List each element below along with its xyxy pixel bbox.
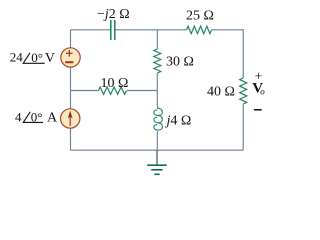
resistor 40 ohm (right rail)	[240, 78, 247, 104]
wire: capacitor to 25-ohm resistor	[115, 29, 186, 31]
svg-text:30 Ω: 30 Ω	[166, 55, 194, 70]
wire: middle horizontal right of 10-ohm to middle branch	[127, 90, 157, 92]
wire: left rail bottom (current source to bottom corner)	[70, 128, 72, 150]
svg-text:24: 24	[10, 49, 24, 64]
svg-text:40 Ω: 40 Ω	[207, 84, 235, 99]
svg-text:25 Ω: 25 Ω	[186, 8, 214, 23]
svg-text:0°: 0°	[31, 110, 43, 125]
wire: middle branch between 30-ohm and middle node	[156, 73, 158, 91]
svg-text:A: A	[47, 111, 58, 126]
wire: inductor top lead	[156, 91, 158, 110]
svg-text:0°: 0°	[31, 50, 43, 65]
svg-text:j4 Ω: j4 Ω	[165, 114, 192, 129]
wire: top-left segment from left rail to capacitor	[71, 29, 111, 31]
wire: left rail top (top corner to voltage source)	[70, 30, 72, 48]
wire: middle horizontal left of 10-ohm	[71, 90, 99, 92]
wire: middle branch top (top rail to 30-ohm)	[156, 30, 158, 49]
wire: 25-ohm resistor to top-right corner down right rail	[212, 30, 244, 78]
capacitor C (-j2 ohm) plates	[111, 20, 115, 40]
label 4 angle 0 A	[15, 110, 58, 126]
svg-text:−j2 Ω: −j2 Ω	[97, 7, 130, 22]
resistor 25 ohm (top)	[187, 26, 212, 34]
svg-text:4: 4	[15, 110, 22, 125]
svg-text:V: V	[45, 51, 55, 66]
current source 4/0 A (circle with up arrow)	[60, 109, 79, 128]
svg-text:o: o	[260, 87, 265, 97]
resistor 10 ohm (middle)	[98, 87, 126, 94]
inductor j4 ohm (three coil loops)	[154, 108, 163, 130]
voltage source 24/0 V (circle with plus minus)	[61, 48, 80, 67]
wire: right rail below 40-ohm resistor	[242, 104, 244, 150]
label 24 angle 0 V	[10, 49, 55, 66]
ground symbol	[156, 150, 158, 164]
wire: inductor bottom lead	[156, 131, 158, 150]
wire: bottom rail	[71, 149, 244, 151]
label minus sign for Vo	[254, 109, 262, 111]
svg-text:10 Ω: 10 Ω	[101, 76, 129, 91]
resistor 30 ohm (vertical middle branch)	[154, 49, 161, 73]
wire: left rail between sources	[70, 67, 72, 109]
